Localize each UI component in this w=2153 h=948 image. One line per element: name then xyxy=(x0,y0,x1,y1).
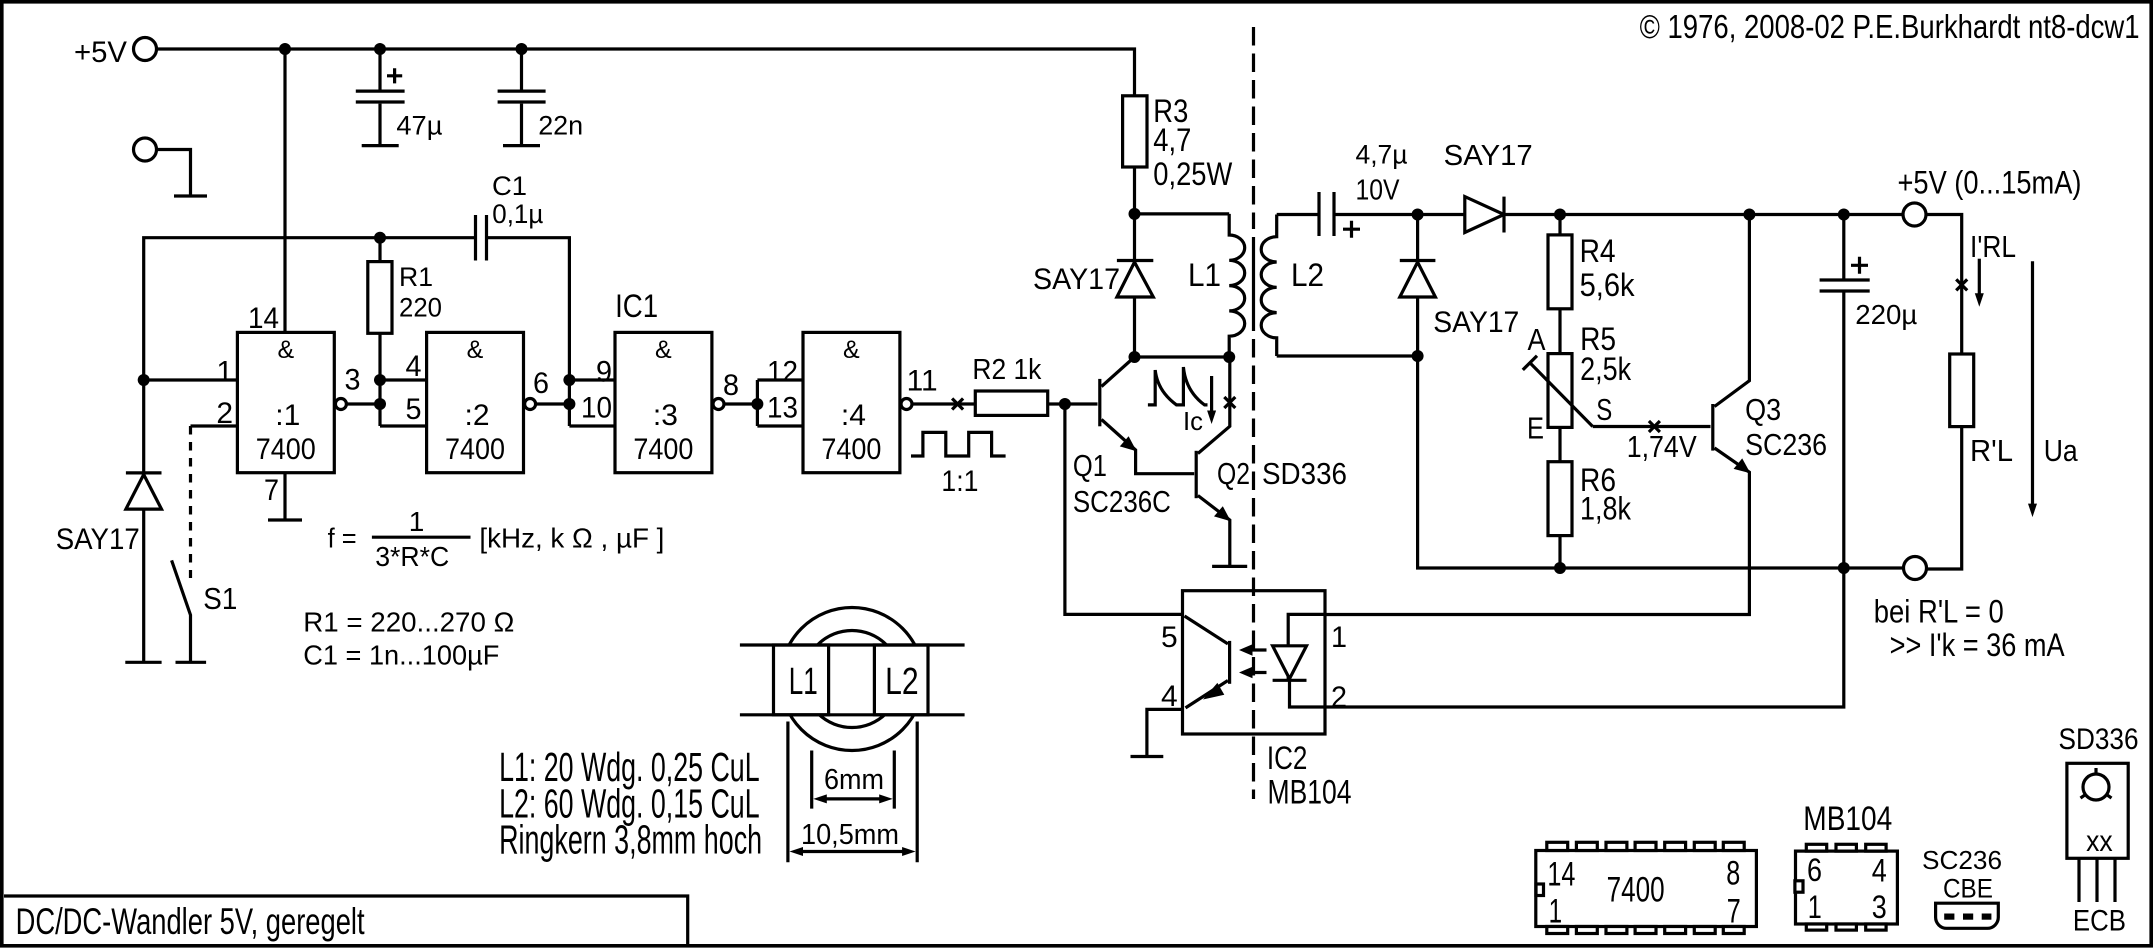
wire gate4 pin12 xyxy=(757,378,803,381)
svg-text:7400: 7400 xyxy=(821,433,881,466)
wire C1 to gate3 input xyxy=(487,238,570,426)
svg-text:1: 1 xyxy=(1549,892,1563,930)
wire gate2 pin4 xyxy=(380,378,427,381)
node gate4 input xyxy=(751,398,763,410)
node R6 bottom junction xyxy=(1554,562,1566,574)
x marker on wiper wire xyxy=(1649,421,1660,432)
svg-text:1,8k: 1,8k xyxy=(1580,491,1632,527)
svg-text:7400: 7400 xyxy=(633,433,693,466)
wire feedback net node A xyxy=(144,238,476,380)
svg-text:SC236C: SC236C xyxy=(1073,484,1171,519)
svg-text:R1 = 220...270 Ω: R1 = 220...270 Ω xyxy=(303,607,514,638)
svg-text:2: 2 xyxy=(1331,681,1347,714)
svg-text:R'L: R'L xyxy=(1970,433,2013,468)
svg-text:220: 220 xyxy=(399,292,442,322)
svg-text:bei R'L = 0: bei R'L = 0 xyxy=(1874,594,2004,630)
potentiometer R5 xyxy=(1523,321,1632,446)
resistor R'L xyxy=(1927,354,2014,569)
wire cap to D3 node xyxy=(1334,213,1465,216)
svg-text:SAY17: SAY17 xyxy=(56,523,140,556)
svg-text:22n: 22n xyxy=(538,111,583,141)
terminal +5V out xyxy=(1903,203,1926,226)
svg-text:5: 5 xyxy=(1161,621,1178,654)
wire Q1 base node to IC2 pin5 xyxy=(1065,404,1183,614)
svg-text:Q2: Q2 xyxy=(1217,456,1250,491)
diode D4 SAY17 horizontal xyxy=(1444,140,1533,233)
gate U1a 7400 :1 xyxy=(237,332,334,472)
transistor Q1 SC236C xyxy=(1073,357,1194,519)
svg-text::2: :2 xyxy=(464,399,489,432)
resistor R4 xyxy=(1548,215,1636,354)
svg-text:0,25W: 0,25W xyxy=(1153,156,1233,192)
wire gate4 pin13 xyxy=(757,424,803,427)
diode D2 SAY17 at Q1 xyxy=(1033,214,1153,357)
wire gate1 pin7 ground xyxy=(283,473,286,520)
svg-text:R1: R1 xyxy=(399,262,433,292)
svg-text:L1: L1 xyxy=(789,661,818,703)
svg-text:4: 4 xyxy=(406,350,422,383)
wire IC2 pin4 to ground xyxy=(1147,709,1183,756)
svg-text:DC/DC-Wandler 5V, geregelt: DC/DC-Wandler 5V, geregelt xyxy=(16,901,366,942)
node R3 bottom junction xyxy=(1129,208,1141,220)
wire gate2 output xyxy=(536,402,570,405)
capacitor 47u xyxy=(356,49,443,146)
bubble gate1 output xyxy=(335,399,346,410)
terminal 0V left xyxy=(134,138,157,161)
wire R2 to Q1 base xyxy=(1048,402,1098,405)
node Q3 collector top junction xyxy=(1743,209,1755,221)
wire Q1 collector node to L1 bottom xyxy=(1135,355,1230,358)
resistor R2 xyxy=(972,354,1047,415)
svg-text:10: 10 xyxy=(581,392,612,425)
wire D4 to +5V out terminal xyxy=(1504,213,1903,216)
svg-text:&: & xyxy=(277,336,294,364)
inductor L2 winding xyxy=(1261,215,1277,357)
svg-text:C1: C1 xyxy=(492,171,527,201)
svg-text:SD336: SD336 xyxy=(1262,456,1347,491)
transistor Q3 SC236 xyxy=(1325,215,1827,615)
svg-text:S1: S1 xyxy=(203,581,237,616)
svg-text:IC2: IC2 xyxy=(1267,740,1308,776)
wire gate3 output xyxy=(724,380,757,426)
svg-text:220µ: 220µ xyxy=(1855,299,1917,330)
svg-text:7400: 7400 xyxy=(445,433,505,466)
svg-text:&: & xyxy=(467,336,484,364)
node feedback-pin1 junction xyxy=(138,374,150,386)
svg-text:7400: 7400 xyxy=(1607,871,1665,910)
core dashed line xyxy=(1252,27,1255,229)
node Q1 collector junction xyxy=(1129,351,1141,363)
resistor R6 xyxy=(1548,427,1632,568)
wire gate1 pin1 xyxy=(144,378,238,381)
capacitor 220u xyxy=(1820,215,1918,569)
svg-text:+5V: +5V xyxy=(74,36,127,69)
svg-text:12: 12 xyxy=(767,356,798,389)
svg-text:8: 8 xyxy=(723,369,739,402)
svg-text:5,6k: 5,6k xyxy=(1580,267,1636,303)
svg-text:8: 8 xyxy=(1726,855,1740,893)
svg-text:IC1: IC1 xyxy=(615,288,658,324)
svg-text:ECB: ECB xyxy=(2073,904,2126,937)
node 220u top junction xyxy=(1838,209,1850,221)
svg-text::3: :3 xyxy=(653,399,678,432)
capacitor 4,7u 10V xyxy=(1319,140,1408,238)
svg-text:Ic: Ic xyxy=(1183,406,1203,436)
ground bar IC2 pin4 xyxy=(1131,755,1164,758)
wire R3 node to L1 top xyxy=(1135,212,1230,215)
svg-text:L2: L2 xyxy=(885,661,919,703)
svg-text:9: 9 xyxy=(596,356,612,389)
svg-text:SAY17: SAY17 xyxy=(1433,306,1519,339)
svg-text:S: S xyxy=(1596,392,1612,427)
capacitor C1 xyxy=(476,171,544,261)
svg-text:Q3: Q3 xyxy=(1745,392,1781,427)
node gate2 input top xyxy=(374,374,386,386)
svg-text:Q1: Q1 xyxy=(1073,448,1107,483)
node gate3 input top xyxy=(563,374,575,386)
svg-text:SC236: SC236 xyxy=(1745,427,1827,462)
arrow I'RL xyxy=(1975,259,1984,307)
svg-text:R2 1k: R2 1k xyxy=(972,354,1041,386)
wire 0V terminal to ground xyxy=(157,150,191,197)
svg-text:[kHz, k Ω , µF ]: [kHz, k Ω , µF ] xyxy=(479,523,664,554)
svg-text:10,5mm: 10,5mm xyxy=(801,819,899,851)
svg-text:14: 14 xyxy=(1547,855,1575,893)
svg-text:4: 4 xyxy=(1161,680,1178,713)
svg-text:6: 6 xyxy=(1807,852,1822,888)
package 7400 DIP xyxy=(1536,842,1757,933)
package SD336 xyxy=(2059,723,2139,937)
x marker on I'RL xyxy=(1956,279,1967,290)
diode D1 SAY17 left xyxy=(56,380,162,662)
svg-text:&: & xyxy=(843,336,860,364)
svg-text:SAY17: SAY17 xyxy=(1033,263,1120,296)
svg-text:3: 3 xyxy=(345,364,361,397)
node gate2 input mid xyxy=(374,398,386,410)
capacitor 22n xyxy=(498,49,584,146)
svg-text:2,5k: 2,5k xyxy=(1580,351,1632,387)
resistor R3 xyxy=(1123,93,1233,214)
svg-text:7400: 7400 xyxy=(256,433,316,466)
svg-text:1: 1 xyxy=(409,506,425,537)
node gate3 input mid xyxy=(563,398,575,410)
formula f = 1/(3*R*C) xyxy=(328,506,665,572)
toroid core drawing xyxy=(740,608,965,751)
node 220u bottom junction xyxy=(1838,562,1850,574)
svg-text:3: 3 xyxy=(1872,889,1887,925)
svg-text:13: 13 xyxy=(767,392,798,425)
svg-text:L1: L1 xyxy=(1188,257,1221,293)
node L1 bottom junction xyxy=(1223,351,1235,363)
node junction 22n xyxy=(516,43,528,55)
svg-text:1: 1 xyxy=(1808,889,1822,925)
svg-text:10V: 10V xyxy=(1356,175,1401,207)
svg-text:1,74V: 1,74V xyxy=(1627,429,1697,464)
node Q1 base junction xyxy=(1059,398,1071,410)
optocoupler IC2 MB104 xyxy=(1183,591,1326,734)
wire gate2 pin5 xyxy=(380,424,427,427)
svg-text:E: E xyxy=(1527,411,1544,446)
node D3 bottom junction xyxy=(1412,350,1424,362)
gate U1b 7400 :2 xyxy=(427,332,524,472)
svg-text:5: 5 xyxy=(406,393,422,426)
wire terminal to R'L branch xyxy=(1926,215,1962,355)
node R1 top junction xyxy=(374,232,386,244)
svg-text:f =: f = xyxy=(328,523,357,554)
gate U1d 7400 :4 xyxy=(803,332,900,472)
wire gate1 output xyxy=(346,402,380,405)
svg-text:SD336: SD336 xyxy=(2059,723,2139,756)
svg-text:>> I'k = 36 mA: >> I'k = 36 mA xyxy=(1890,627,2066,663)
dimension 10,5mm xyxy=(788,722,917,863)
svg-text:SC236: SC236 xyxy=(1922,845,2002,875)
node junction pin14 rail xyxy=(279,43,291,55)
svg-text:47µ: 47µ xyxy=(396,111,442,141)
bubble gate4 output xyxy=(901,399,912,410)
wire gate4 output to R2 xyxy=(912,402,975,405)
svg-text:4,7µ: 4,7µ xyxy=(1356,140,1408,170)
x marker on Q2 collector xyxy=(1224,397,1235,408)
Ic pulse waveform xyxy=(1148,367,1208,405)
svg-text:A: A xyxy=(1528,322,1546,357)
svg-text:1:1: 1:1 xyxy=(941,465,978,498)
wire wiper to Q3 base xyxy=(1593,425,1711,428)
terminal +5V left xyxy=(134,38,157,61)
bubble gate3 output xyxy=(713,399,724,410)
wire bottom rail xyxy=(1418,356,1904,568)
svg-text:14: 14 xyxy=(248,302,279,335)
wire L2 bottom to D3 bottom xyxy=(1277,354,1418,357)
gate U1c 7400 :3 xyxy=(615,332,712,472)
bubble gate2 output xyxy=(525,399,536,410)
inductor L1 winding xyxy=(1229,214,1245,357)
svg-text:xx: xx xyxy=(2086,825,2113,858)
svg-text:7: 7 xyxy=(1727,892,1741,930)
svg-text:3*R*C: 3*R*C xyxy=(375,541,449,572)
svg-text:+5V (0...15mA): +5V (0...15mA) xyxy=(1898,165,2082,201)
svg-text:6mm: 6mm xyxy=(824,764,884,796)
wire +5V top rail xyxy=(157,49,1135,96)
terminal 0V out xyxy=(1904,557,1927,580)
squarewave symbol 1:1 xyxy=(911,432,1006,498)
package SC236 xyxy=(1922,845,2002,928)
switch S1 xyxy=(172,426,238,662)
node R4 top junction xyxy=(1554,209,1566,221)
svg-text:7: 7 xyxy=(264,474,279,507)
node D3 top junction xyxy=(1412,209,1424,221)
svg-text::1: :1 xyxy=(275,399,300,432)
svg-text:CBE: CBE xyxy=(1943,874,1993,904)
svg-text:L2: L2 xyxy=(1291,257,1324,293)
Ic arrow xyxy=(1183,376,1216,436)
svg-text:&: & xyxy=(655,336,672,364)
x marker on gate4 output xyxy=(952,399,963,410)
svg-text:4,7: 4,7 xyxy=(1153,122,1191,158)
svg-text::4: :4 xyxy=(841,399,866,432)
wire gate1 pin2 xyxy=(191,424,238,427)
svg-text:1: 1 xyxy=(1331,621,1347,654)
wire 220u bottom to IC2 pin2 xyxy=(1325,568,1844,707)
diode D3 SAY17 vertical right xyxy=(1400,215,1520,357)
svg-text:© 1976, 2008-02 P.E.Burkhardt: © 1976, 2008-02 P.E.Burkhardt nt8-dcw1 xyxy=(1640,8,2140,45)
svg-text:0,1µ: 0,1µ xyxy=(492,199,543,229)
svg-text:Ua: Ua xyxy=(2044,433,2079,468)
svg-text:1: 1 xyxy=(216,356,233,389)
wire pin14 drop xyxy=(283,49,286,332)
svg-text:Ringkern 3,8mm hoch: Ringkern 3,8mm hoch xyxy=(499,816,762,862)
svg-text:MB104: MB104 xyxy=(1803,800,1892,838)
node junction 47u xyxy=(374,43,386,55)
transistor Q2 xyxy=(1196,357,1250,566)
resistor R1 xyxy=(368,238,442,426)
wire gate3 pin9 xyxy=(569,378,615,381)
arrow Ua xyxy=(2028,261,2078,517)
ground bar pin7 xyxy=(268,518,302,521)
svg-text:SAY17: SAY17 xyxy=(1444,140,1533,172)
wire gate3 pin10 xyxy=(569,424,615,427)
ground bar 0V xyxy=(174,194,207,197)
svg-text:C1 = 1n...100µF: C1 = 1n...100µF xyxy=(303,640,499,671)
wire L2 top to cap xyxy=(1277,213,1318,216)
title block xyxy=(4,896,688,944)
svg-text:R4: R4 xyxy=(1580,233,1616,269)
svg-text:11: 11 xyxy=(907,364,938,397)
package MB104 xyxy=(1795,800,1898,930)
svg-text:I'RL: I'RL xyxy=(1970,229,2016,264)
svg-text:MB104: MB104 xyxy=(1268,774,1352,812)
dimension 6mm xyxy=(812,751,895,809)
svg-text:4: 4 xyxy=(1872,852,1887,888)
svg-text:6: 6 xyxy=(533,367,549,400)
